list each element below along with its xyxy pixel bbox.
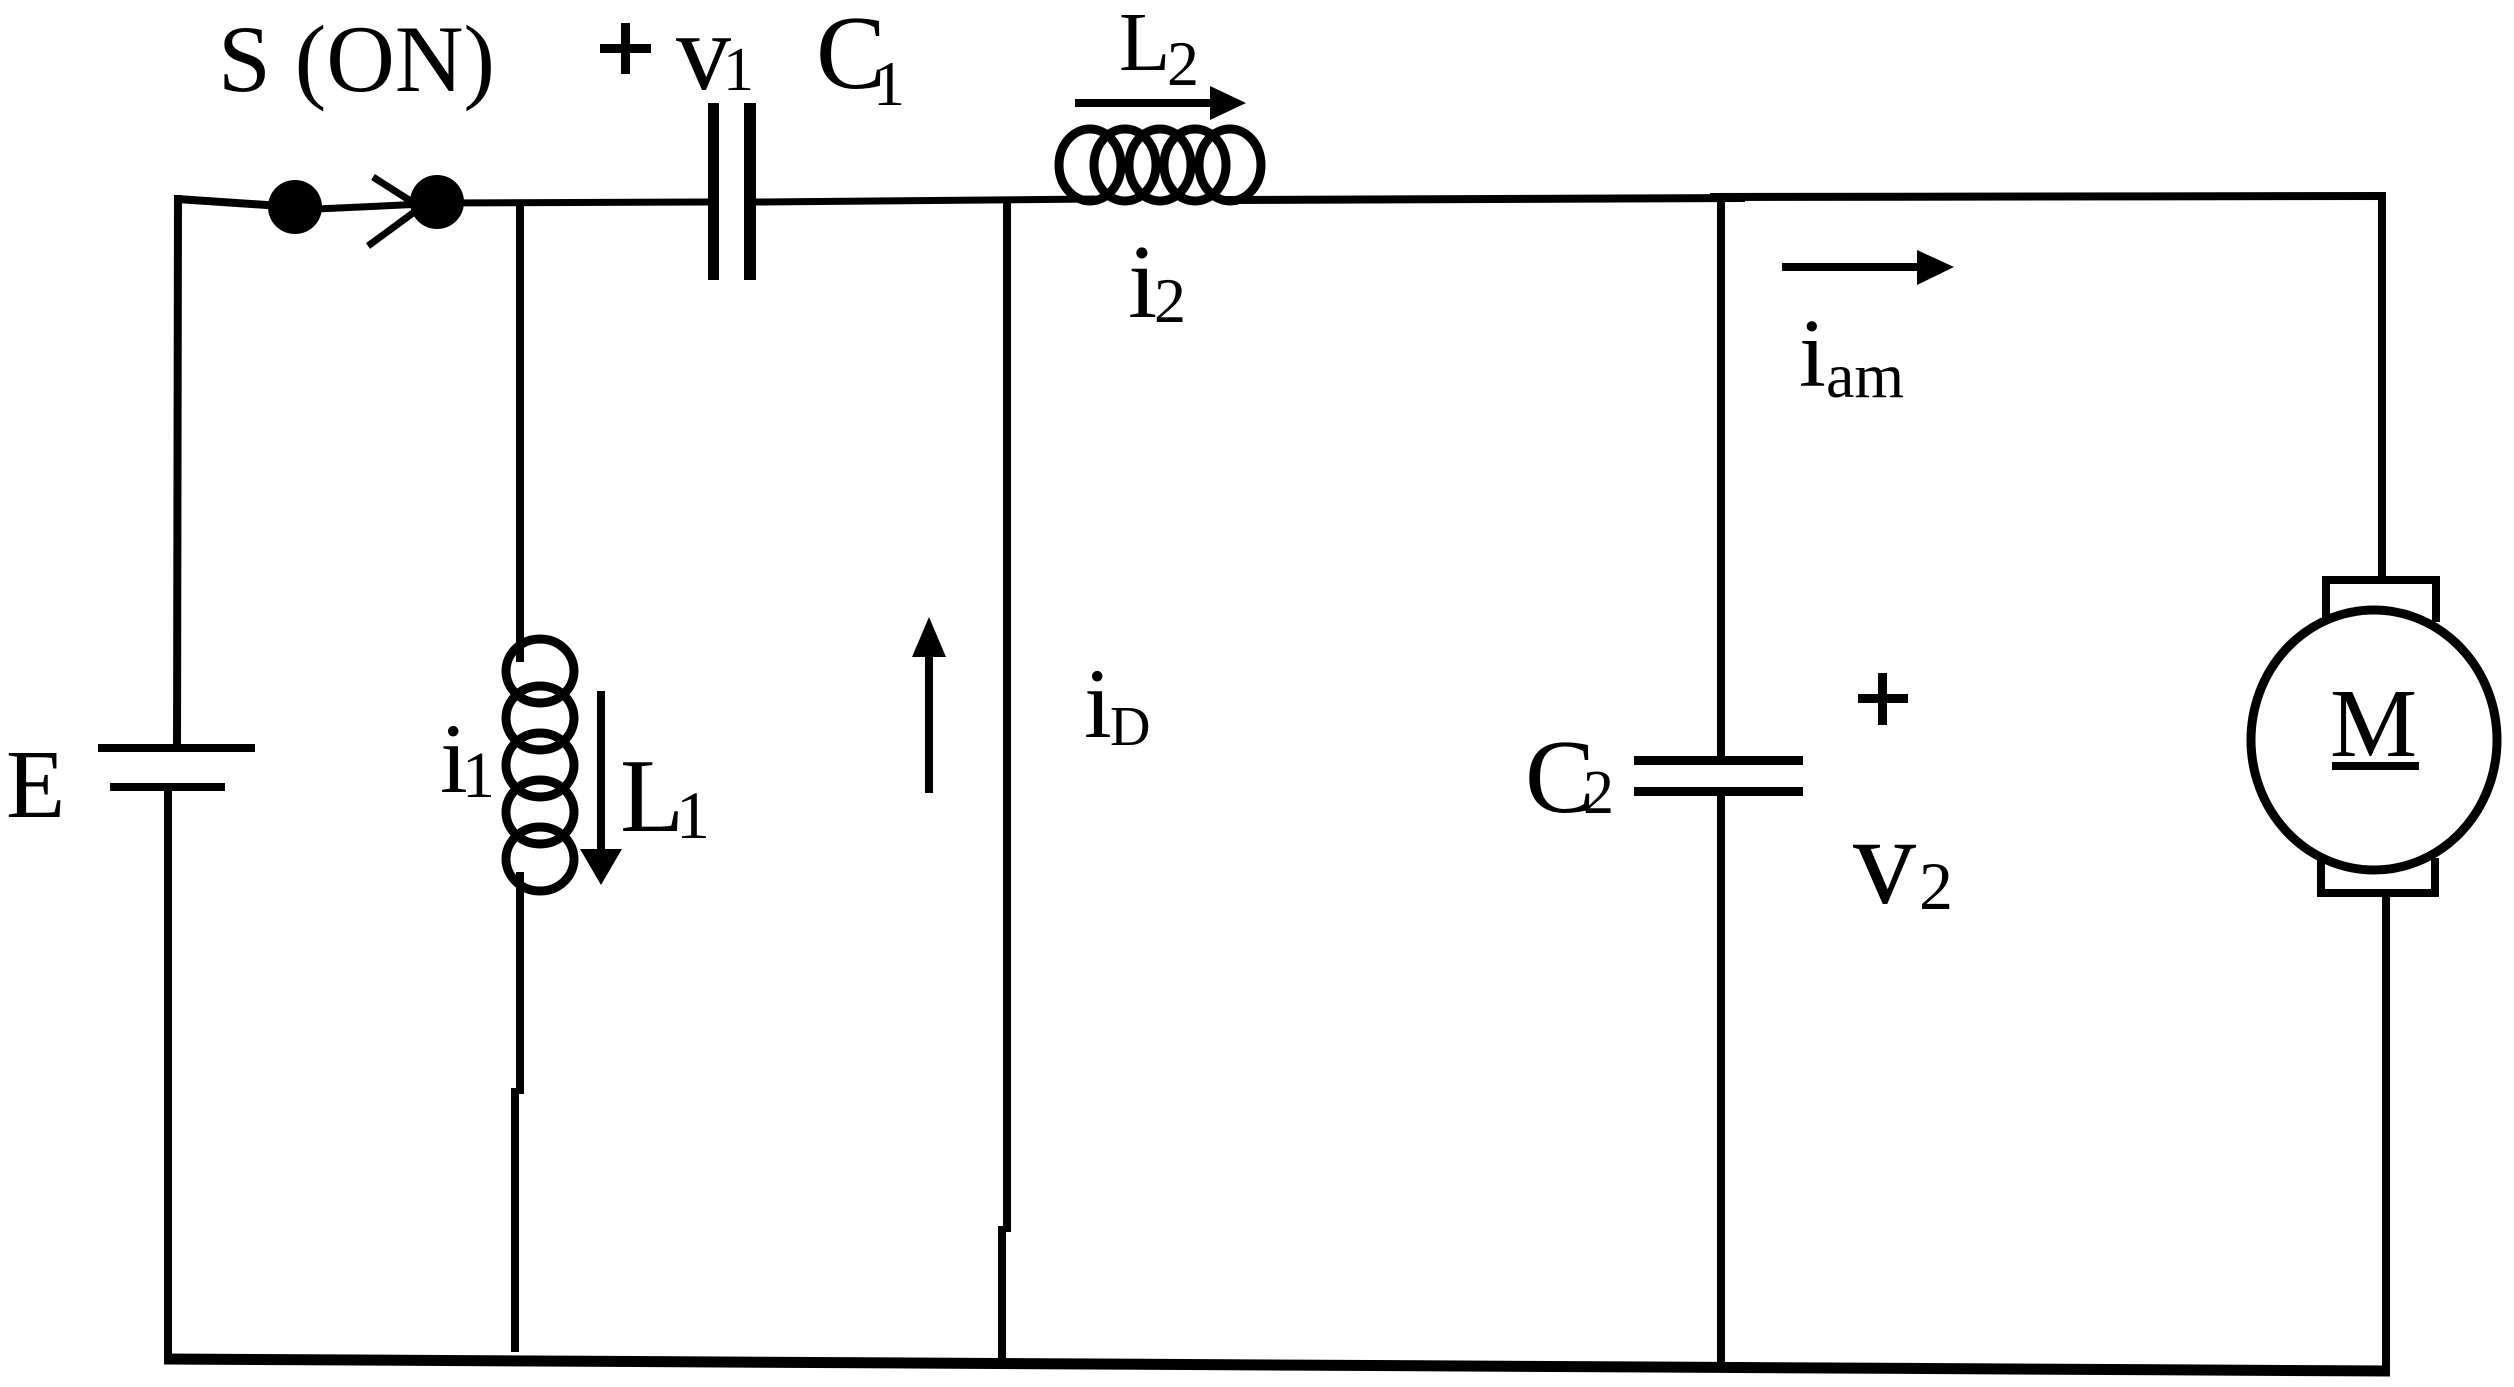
svg-text:E: E bbox=[6, 731, 65, 838]
arrow iD up bbox=[925, 652, 933, 793]
svg-text:S (ON): S (ON) bbox=[218, 6, 495, 112]
wire left vertical from top corner down to battery top plate bbox=[177, 195, 178, 748]
svg-text:v: v bbox=[1853, 792, 1916, 931]
label + of v1 bbox=[600, 44, 651, 53]
svg-text:M: M bbox=[2330, 670, 2417, 778]
motor top brush bbox=[2326, 580, 2436, 622]
capacitor C2 branch top wire bbox=[1717, 197, 1725, 757]
wire switch to C1 bbox=[437, 202, 710, 203]
wire L1 branch from top node bbox=[516, 200, 524, 662]
switch S left contact dot bbox=[268, 180, 322, 234]
svg-text:i: i bbox=[1084, 648, 1112, 759]
wire below L1 bbox=[516, 872, 524, 1094]
svg-text:2: 2 bbox=[1154, 265, 1186, 336]
svg-text:D: D bbox=[1110, 696, 1150, 758]
label + of v2 bbox=[1858, 694, 1908, 703]
svg-text:i: i bbox=[1128, 223, 1157, 340]
svg-text:2: 2 bbox=[1583, 759, 1614, 827]
svg-text:1: 1 bbox=[723, 36, 754, 104]
capacitor C2 bottom plate bbox=[1634, 787, 1803, 796]
capacitor C1 left plate bbox=[708, 103, 719, 280]
svg-text:2: 2 bbox=[1167, 28, 1199, 99]
arrow i am bbox=[1782, 263, 1919, 271]
wire battery bottom to bottom-left corner bbox=[164, 789, 172, 1362]
wire C1 to L2 bbox=[756, 199, 1095, 202]
capacitor C1 right plate bbox=[744, 103, 756, 280]
svg-text:L: L bbox=[1119, 0, 1170, 89]
svg-text:1: 1 bbox=[873, 48, 905, 119]
bottom wire bbox=[164, 1359, 2390, 1371]
wire L2 to top-right corner bbox=[1226, 198, 1745, 200]
switch arm bbox=[295, 204, 424, 210]
motor bottom wire bbox=[2382, 893, 2390, 1371]
wire right vertical to motor bbox=[2378, 192, 2386, 581]
diode branch vertical wire iD bbox=[1003, 199, 1011, 1232]
wire top-left segment from corner to switch left contact bbox=[177, 199, 296, 207]
motor bottom brush bbox=[2321, 858, 2435, 893]
svg-text:1: 1 bbox=[676, 777, 710, 853]
switch arrow upper barb bbox=[373, 177, 420, 207]
svg-text:L: L bbox=[620, 737, 684, 854]
arrow over L2 bbox=[1075, 99, 1212, 107]
battery E top plate bbox=[98, 744, 255, 752]
svg-text:2: 2 bbox=[1919, 848, 1953, 924]
switch arrow lower barb bbox=[368, 199, 432, 246]
switch S right contact dot bbox=[410, 175, 464, 229]
inductor L2 coil bbox=[1059, 129, 1261, 201]
capacitor C2 bottom wire bbox=[1717, 796, 1725, 1370]
capacitor C2 top plate bbox=[1634, 756, 1803, 765]
arrow L1 down bbox=[597, 691, 605, 852]
svg-text:1: 1 bbox=[462, 739, 495, 812]
inductor L1 vertical coil bbox=[506, 639, 574, 891]
svg-text:am: am bbox=[1826, 340, 1904, 411]
battery E bottom plate bbox=[110, 783, 225, 791]
motor circle bbox=[2251, 610, 2497, 870]
svg-text:i: i bbox=[1799, 300, 1826, 407]
